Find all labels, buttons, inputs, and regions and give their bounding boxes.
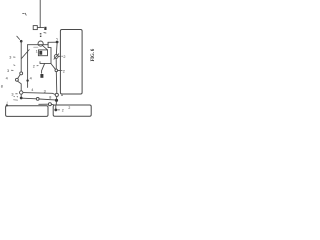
svg-text:3: 3 [44, 90, 46, 94]
wire V1 left vertical [20, 41, 22, 72]
wire V3 with jog [48, 42, 51, 63]
component box B1 with dark mark [38, 50, 47, 56]
component box 12 (top small box) [33, 26, 37, 30]
numeral 22 inside big box [61, 55, 62, 57]
svg-text:8: 8 [49, 96, 51, 100]
svg-text:4: 4 [31, 88, 33, 92]
label dash and numeral 27 [58, 109, 60, 111]
node J3 dark dot [55, 99, 58, 102]
svg-text:8: 8 [1, 85, 3, 89]
tiny reference numerals (drawn as small dark text) [1, 50, 71, 113]
wire from S2 down to V1 lower [18, 81, 22, 91]
link wire into right box [51, 103, 53, 105]
svg-text:2: 2 [63, 69, 65, 73]
node J2 junction dot [20, 97, 23, 100]
numeral 24 inside big box [61, 70, 62, 72]
svg-text:3: 3 [9, 56, 11, 60]
tick at H2 left end [39, 62, 41, 64]
arrow through C1 [42, 45, 47, 49]
svg-text:3: 3 [11, 92, 13, 96]
wire B (J2 right to bus) [23, 97, 37, 100]
tiny mark below top label [44, 32, 46, 34]
wire: top horizontal stub [38, 27, 44, 29]
big box 20 [60, 30, 82, 95]
lamp circle C1 (crossed circle on H1) [38, 41, 43, 46]
svg-text:3: 3 [7, 69, 9, 73]
arrow through C2 [54, 54, 59, 59]
connector circle C2 (on bus, to big box) [54, 55, 58, 59]
svg-text:2: 2 [33, 64, 35, 68]
wire C2 to big box [58, 55, 60, 57]
switch contact circle S1 [20, 72, 23, 75]
wire diagonal H2 to C4 [51, 63, 56, 69]
potentiometer arm to terminal T1 [42, 64, 45, 74]
wire: top vertical antenna lead [39, 0, 41, 28]
wire V2 second vertical [27, 45, 29, 88]
svg-text:2: 2 [62, 108, 64, 112]
node dot inside bottom-right box [54, 109, 57, 112]
label 36 leader dash (far upper-left) [23, 13, 25, 15]
connector circle C3 [20, 91, 23, 94]
faint dash under H1 [34, 46, 38, 48]
tick above J1 [56, 37, 59, 40]
switch contact circle S2 [15, 78, 18, 81]
wire C4 to big box [58, 69, 61, 71]
bus wire segments [55, 43, 58, 54]
label 14 ticks above C1 [40, 33, 42, 34]
wire H1 main horizontal [28, 44, 48, 46]
switch arm diagonal [18, 75, 20, 79]
svg-text:2: 2 [68, 106, 70, 110]
node nub at box corner [6, 104, 8, 106]
connector circle C5 [55, 93, 58, 96]
wire C3 to J2 [20, 94, 22, 96]
node dot on V2 [26, 79, 28, 81]
stub into bottom-right box to dot [55, 105, 57, 109]
connector circle C6 on wire B [36, 98, 39, 101]
svg-text:2: 2 [63, 55, 65, 59]
label 9 (right of top box) [44, 27, 46, 30]
leader tick above J0 [17, 36, 20, 39]
terminal blob T1 [40, 74, 43, 78]
bottom-right box 46 [53, 105, 91, 116]
svg-text:4: 4 [6, 77, 8, 81]
label 32 above J2 [14, 95, 15, 97]
wire H2 [40, 62, 51, 64]
link wire between bottom boxes [39, 103, 49, 105]
arrow diagonal onto V1 [22, 50, 30, 59]
FIG. 6 rotated label [91, 48, 96, 61]
bottom-left box 44 [6, 106, 48, 117]
wire A (C3 right to bus) [23, 93, 55, 95]
wire from J2 left and down to bottom-left box [14, 99, 18, 101]
connector circle C4 [55, 69, 58, 72]
node J0 junction dot [20, 40, 23, 43]
svg-text:4: 4 [30, 76, 32, 80]
wire B continued [39, 98, 55, 101]
svg-text:FIG. 6: FIG. 6 [91, 48, 96, 61]
node J1 junction dot [56, 41, 59, 44]
wire H1 jog [48, 42, 57, 45]
connector circle C7 [48, 103, 51, 106]
label right of C5 [61, 94, 63, 96]
svg-text:1: 1 [36, 50, 38, 54]
